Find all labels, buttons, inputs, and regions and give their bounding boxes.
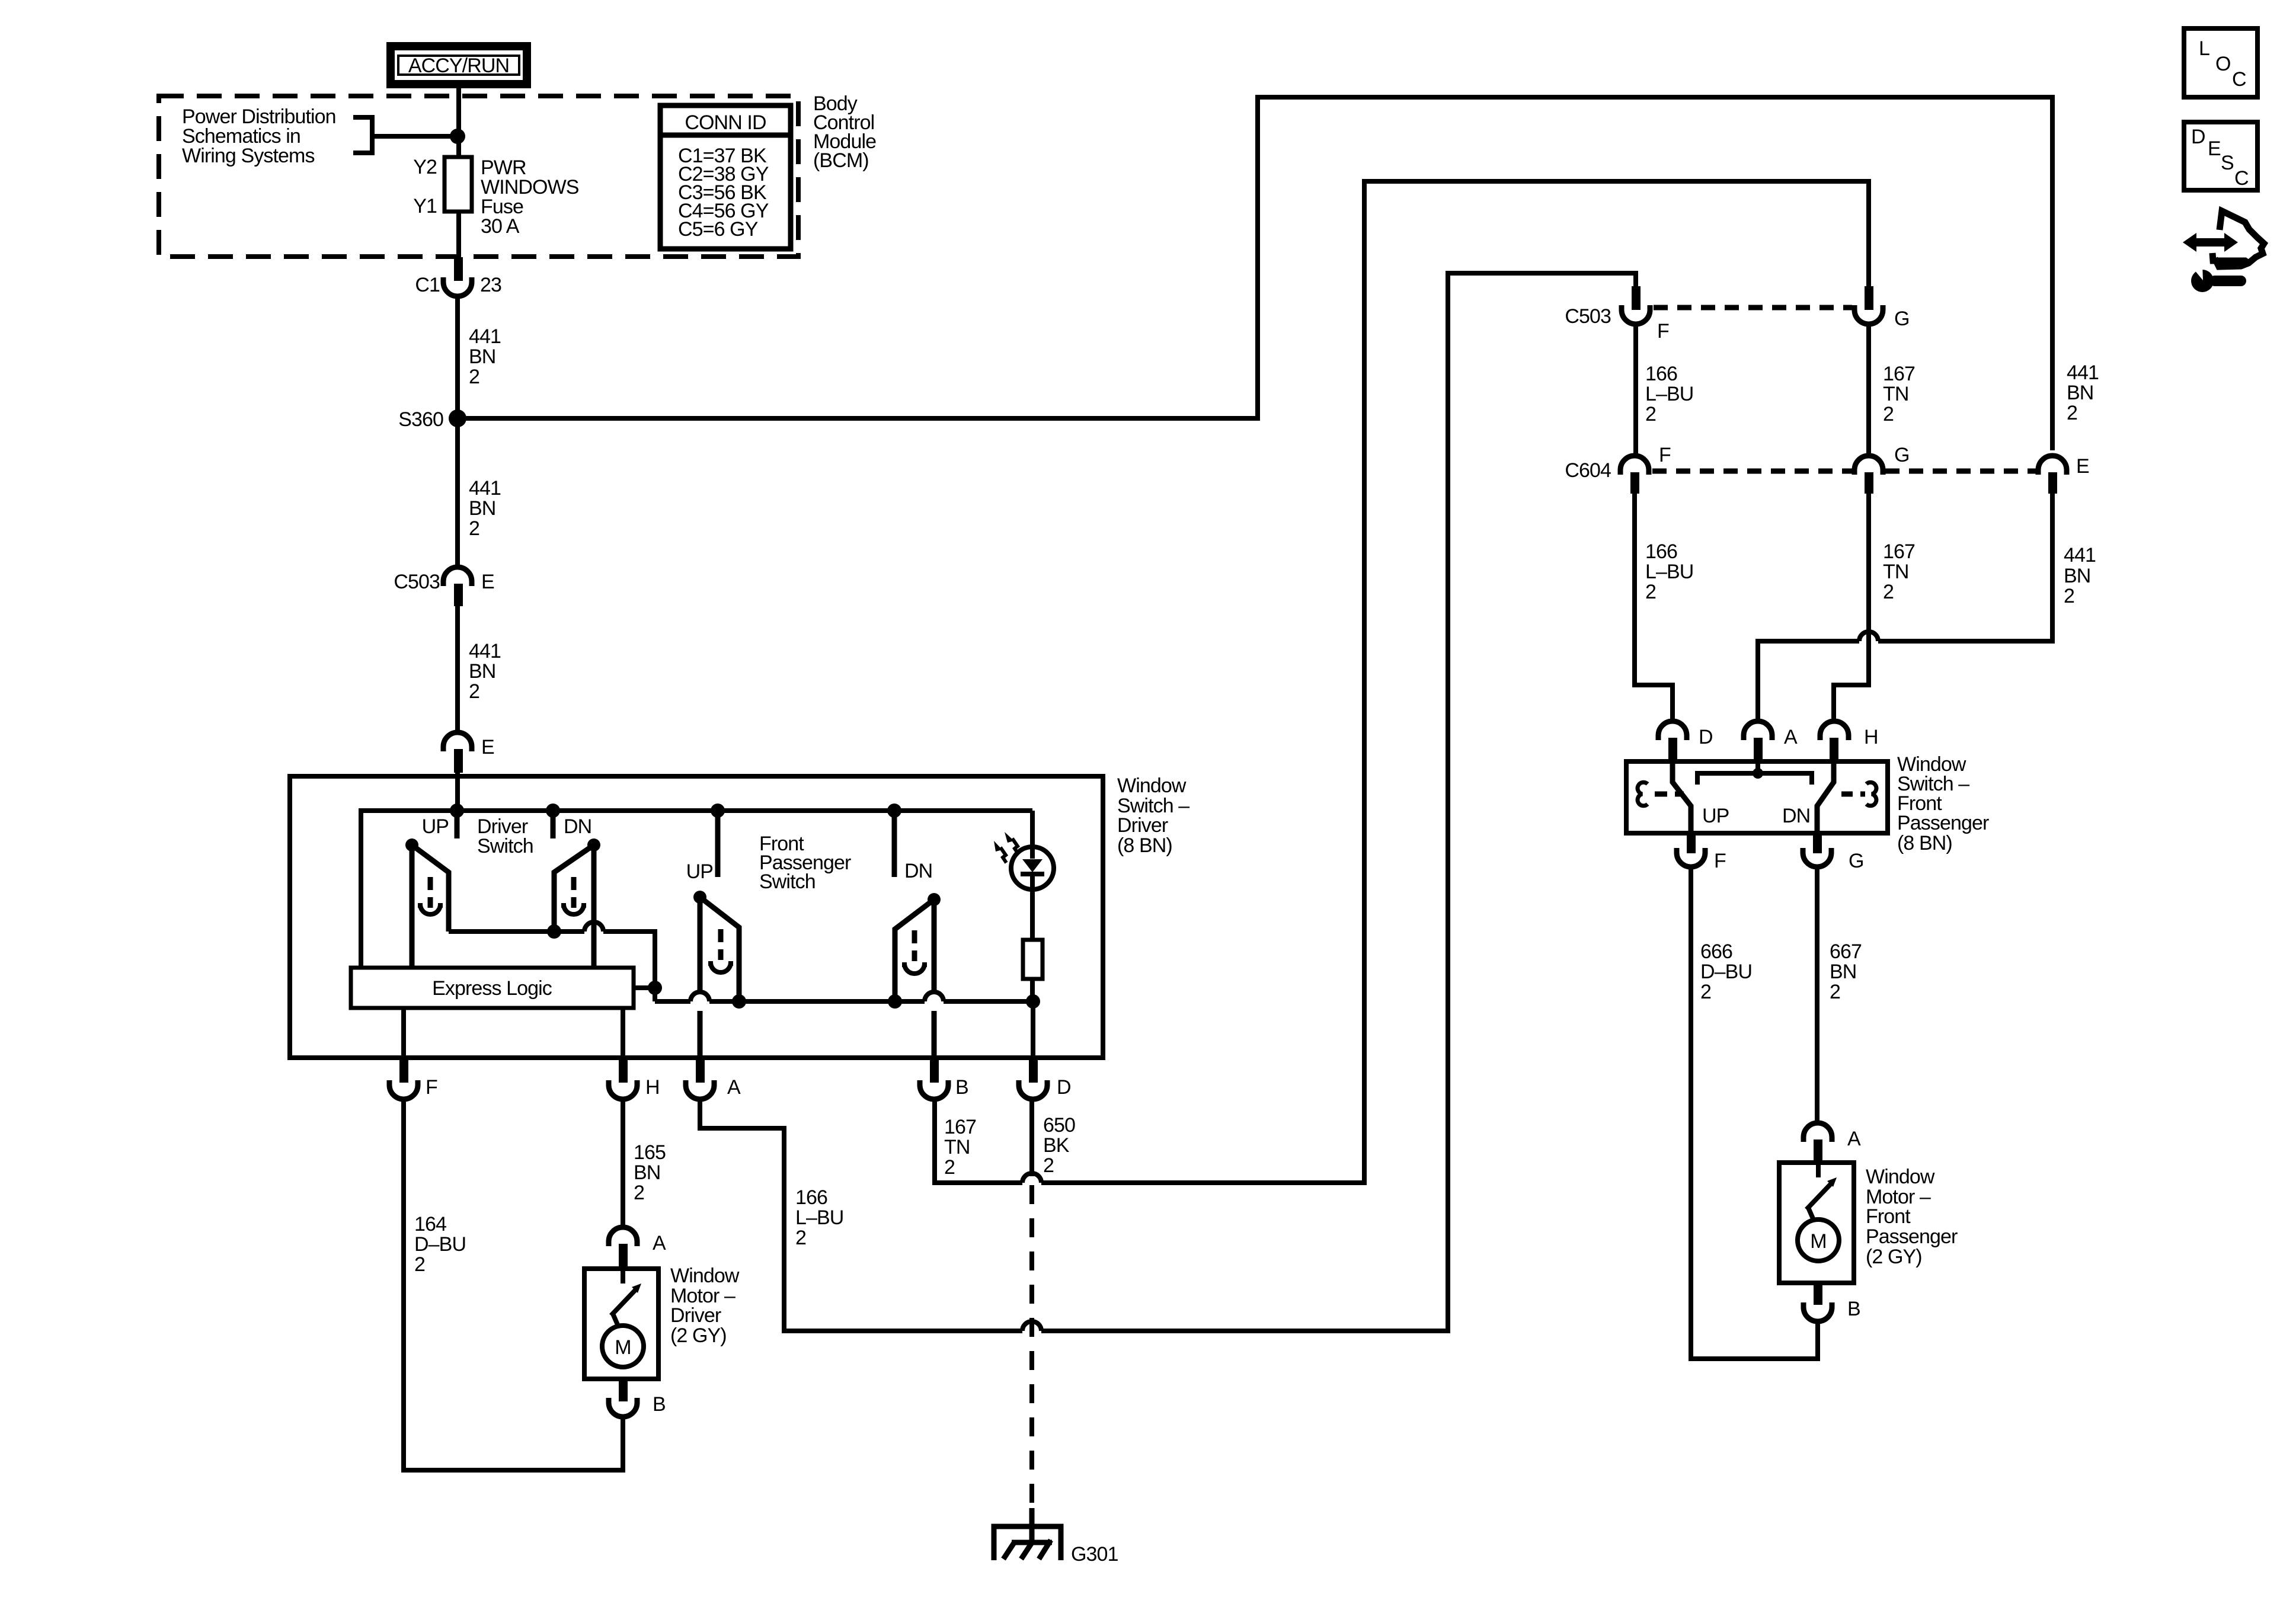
wire S360 feed loop to C604 E (441 BN 2) (458, 97, 2052, 450)
connector C604 terminal G (1854, 444, 1910, 475)
reference box LOC (2184, 28, 2257, 97)
pin E of connector C604 (2048, 472, 2057, 494)
node LED leg to lower bus (1026, 994, 1040, 1009)
svg-text:C: C (2232, 68, 2246, 91)
svg-text:2: 2 (469, 680, 479, 703)
svg-text:D: D (2191, 126, 2205, 148)
wire dashed detent left (1655, 792, 1684, 797)
connector terminal A of passenger switch (1744, 721, 1798, 748)
wire terminal F to driver motor B, circuit 164 D-BU 2 (404, 1099, 623, 1470)
svg-text:(2 GY): (2 GY) (1866, 1246, 1922, 1268)
switch driver UP (pivot, blade, detent) (405, 838, 449, 968)
svg-text:Window: Window (1866, 1166, 1935, 1188)
svg-text:2: 2 (1883, 403, 1894, 425)
connector C604 terminal F (1565, 444, 1671, 482)
connector C1 terminal 23 (415, 274, 501, 296)
wire LED to resistor (1030, 876, 1035, 940)
svg-text:D: D (1057, 1076, 1071, 1099)
power symbol ACCY/RUN (391, 46, 527, 84)
connector terminal B of passenger window motor (1803, 1298, 1860, 1321)
wire fuse to connector C1 (456, 212, 461, 257)
wire dashed ground run to G301 (1029, 1185, 1034, 1510)
svg-text:A: A (1784, 726, 1798, 748)
svg-text:DN: DN (1782, 805, 1810, 827)
svg-text:2: 2 (469, 366, 479, 388)
pin A of passenger switch (1754, 738, 1763, 761)
pin B of passenger window motor (1814, 1283, 1822, 1305)
pin F of connector C604 (1630, 472, 1639, 494)
pin A of driver window motor (619, 1244, 628, 1269)
callout bracket to Power Distribution (353, 117, 454, 153)
svg-text:D: D (1699, 726, 1713, 748)
svg-text:E: E (481, 736, 494, 758)
wire crossbar from UP/DN blades to express logic (hop over DN pivot wire) (449, 922, 655, 1001)
wire express logic to terminal F (401, 1008, 406, 1058)
splice node S360 (449, 409, 466, 427)
svg-text:TN: TN (944, 1136, 970, 1158)
pin F of passenger switch (1687, 833, 1696, 853)
label Body Control Module (BCM) (813, 92, 876, 172)
svg-text:S: S (2221, 152, 2234, 174)
wire dashed connector line C604 G-E (1885, 469, 2036, 474)
svg-text:Passenger: Passenger (1866, 1225, 1958, 1248)
svg-text:CONN ID: CONN ID (685, 111, 766, 134)
svg-text:666: 666 (1700, 940, 1732, 963)
wire C503 G to C604 G, circuit 167 TN 2 (1866, 324, 1871, 456)
svg-text:Y1: Y1 (413, 195, 437, 217)
contact stub driver DN (551, 811, 556, 838)
svg-text:(8 BN): (8 BN) (1117, 834, 1172, 857)
node bus to passenger DN contact (887, 804, 901, 818)
svg-text:441: 441 (469, 325, 501, 348)
svg-text:G301: G301 (1071, 1543, 1118, 1566)
connector id table CONN ID (660, 105, 791, 249)
svg-text:BN: BN (469, 660, 495, 683)
wire terminal D ground drop, circuit 650 BK 2 (1029, 1099, 1034, 1176)
contact stub passenger DN (892, 811, 897, 877)
svg-text:C: C (2234, 167, 2249, 190)
pin E of C503 (454, 584, 463, 606)
svg-text:C604: C604 (1565, 459, 1611, 482)
symbol spring-return arrow right (1866, 782, 1876, 806)
motor M passenger (1798, 1219, 1839, 1261)
wire label 441 BN 2 at C604 E feed (2067, 361, 2099, 424)
svg-text:BN: BN (2067, 382, 2093, 404)
svg-text:2: 2 (1645, 581, 1656, 603)
svg-text:A: A (1847, 1128, 1861, 1150)
switch passenger UP contact blade D-F (1673, 761, 1691, 833)
wire ACCY/RUN to fuse (456, 88, 461, 157)
wire C604 G to passenger switch H, circuit 167 TN 2 (1834, 494, 1869, 721)
wire dashed connector line C503 F-G (1654, 305, 1852, 311)
svg-text:Wiring Systems: Wiring Systems (182, 145, 315, 167)
node DN blade to crossbar (547, 924, 561, 939)
wire terminal H to driver motor A, circuit 165 BN 2 (621, 1099, 625, 1227)
component box Window Switch - Driver (8 BN) (290, 776, 1103, 1058)
hop 167 wire over ground wire (1022, 1173, 1041, 1183)
switch passenger DN contact blade H-G (1817, 761, 1834, 833)
svg-text:UP: UP (686, 860, 713, 883)
svg-text:F: F (1659, 444, 1671, 466)
svg-text:C503: C503 (394, 571, 440, 593)
circuit breaker inside driver motor (611, 1269, 641, 1327)
node crossbar to express logic (648, 981, 662, 995)
svg-text:H: H (1864, 726, 1878, 748)
wire passenger F to motor B, circuit 666 D-BU 2 (1691, 867, 1818, 1359)
pin G of passenger switch (1813, 833, 1822, 853)
svg-text:667: 667 (1830, 940, 1862, 963)
svg-text:2: 2 (2067, 402, 2077, 424)
svg-text:2: 2 (1700, 981, 1711, 1003)
connector terminal E at driver window switch (443, 732, 494, 758)
svg-text:2: 2 (795, 1227, 806, 1249)
svg-text:O: O (2215, 53, 2231, 75)
svg-text:2: 2 (414, 1253, 425, 1276)
svg-text:C5=6 GY: C5=6 GY (678, 218, 758, 241)
svg-text:ACCY/RUN: ACCY/RUN (408, 55, 509, 77)
svg-text:167: 167 (1883, 540, 1915, 563)
reference box DESC (2184, 122, 2257, 190)
node bus to DN contact (546, 804, 560, 818)
connector C503 terminal G (1854, 305, 1910, 330)
svg-text:Passenger: Passenger (1897, 812, 1989, 834)
connector terminal F of passenger switch (1677, 848, 1726, 872)
pin B of driver switch (930, 1058, 939, 1083)
svg-text:TN: TN (1883, 561, 1909, 583)
wire express logic to crossbar (634, 985, 655, 990)
svg-text:L–BU: L–BU (795, 1206, 843, 1229)
svg-text:(8 BN): (8 BN) (1897, 832, 1952, 854)
wire S360 down to C503 E, circuit 441 BN 2 (455, 418, 460, 567)
svg-text:BN: BN (634, 1161, 660, 1184)
node junction at BCM feed (450, 129, 465, 144)
svg-text:L–BU: L–BU (1645, 383, 1693, 405)
wire A center feed with bracket (1697, 761, 1812, 785)
connector terminal F of driver switch (389, 1076, 437, 1099)
wire E pin into switch internal bus (455, 770, 460, 811)
node passenger UP blade to lower bus (732, 994, 746, 1009)
svg-text:441: 441 (2064, 544, 2096, 566)
svg-text:2: 2 (1043, 1154, 1054, 1177)
svg-text:165: 165 (634, 1141, 666, 1164)
motor box Window Motor - Driver (2 GY) (584, 1269, 658, 1379)
svg-text:H: H (645, 1076, 660, 1099)
svg-text:L–BU: L–BU (1645, 561, 1693, 583)
svg-text:D–BU: D–BU (1700, 961, 1752, 983)
svg-text:BN: BN (469, 497, 495, 520)
wire resistor to lower bus and terminal D (1032, 979, 1033, 1058)
svg-text:166: 166 (1645, 363, 1677, 385)
connector terminal A of driver switch (686, 1076, 741, 1099)
svg-text:A: A (653, 1232, 666, 1254)
svg-text:G: G (1894, 308, 1910, 330)
connector terminal H of driver switch (609, 1076, 660, 1099)
logic block Express Logic (351, 968, 634, 1008)
svg-text:F: F (1657, 320, 1669, 343)
pin 23 of connector C1 (454, 257, 463, 281)
svg-text:2: 2 (634, 1182, 644, 1204)
svg-text:S360: S360 (398, 408, 443, 431)
connector terminal D of driver switch (1019, 1076, 1071, 1099)
svg-text:Front: Front (1866, 1205, 1911, 1228)
resistor (LED dropping resistor) (1023, 940, 1043, 979)
contact stub driver UP (455, 811, 460, 838)
component box Window Switch - Front Passenger (8 BN) (1626, 761, 1888, 833)
pin D of driver switch (1029, 1058, 1038, 1083)
svg-text:G: G (1894, 444, 1910, 466)
module box Body Control Module (BCM) dashed border (159, 96, 798, 257)
wire express logic to terminal H (621, 1008, 625, 1058)
svg-text:D–BU: D–BU (414, 1233, 466, 1256)
wire terminal B to C503 G, circuit 167 TN 2 (driver loop) (935, 181, 1869, 1183)
switch driver DN (pivot, blade, detent) (554, 838, 600, 968)
node passenger DN blade to lower bus (888, 994, 902, 1009)
svg-text:E: E (2076, 455, 2089, 478)
svg-text:BN: BN (2064, 565, 2090, 587)
svg-text:Driver: Driver (1117, 814, 1168, 837)
svg-text:164: 164 (414, 1213, 446, 1235)
connector C503 terminal E (left) (394, 567, 494, 593)
svg-text:30 A: 30 A (481, 215, 520, 238)
pin G of connector C503 (1865, 286, 1873, 310)
pin F of connector C503 (1632, 286, 1641, 310)
circuit breaker inside passenger motor (1806, 1163, 1837, 1221)
svg-text:Window: Window (1117, 774, 1187, 797)
fuse F1 PWR WINDOWS 30 A (413, 156, 579, 238)
svg-text:441: 441 (2067, 361, 2099, 384)
svg-text:Express Logic: Express Logic (432, 977, 552, 1000)
symbol spring-return arrow left (1638, 782, 1648, 806)
svg-text:2: 2 (1645, 403, 1656, 425)
svg-text:166: 166 (1645, 540, 1677, 563)
svg-text:Y2: Y2 (413, 156, 437, 178)
motor box Window Motor - Front Passenger (2 GY) (1779, 1163, 1854, 1283)
svg-text:2: 2 (469, 517, 479, 540)
wire C503 E to switch connector E, circuit 441 BN 2 (455, 606, 460, 732)
svg-text:F: F (1714, 850, 1726, 872)
pin D of passenger switch (1668, 738, 1677, 761)
connector terminal A of driver window motor (609, 1227, 666, 1254)
svg-text:166: 166 (795, 1186, 827, 1209)
wire C503 F to C604 F, circuit 166 L-BU 2 (1633, 324, 1638, 456)
svg-text:BN: BN (469, 345, 495, 368)
svg-text:UP: UP (1702, 805, 1729, 827)
svg-text:E: E (481, 571, 494, 593)
pin G of connector C604 (1865, 472, 1873, 494)
svg-text:L: L (2199, 37, 2209, 60)
wire internal feed bus of driver switch (361, 811, 1032, 968)
wire terminal A to C503 F, circuit 166 L-BU 2 (driver loop) (700, 273, 1636, 1331)
wire C604 F to passenger switch D, circuit 166 L-BU 2 (1635, 494, 1673, 721)
svg-text:441: 441 (469, 640, 501, 662)
wire dashed detent right (1841, 792, 1865, 797)
svg-text:BK: BK (1043, 1134, 1070, 1157)
pin E of driver window switch (454, 749, 463, 773)
wire passenger G to motor A, circuit 667 BN 2 (1815, 867, 1819, 1123)
svg-text:167: 167 (1883, 363, 1915, 385)
node bus to passenger UP contact (711, 804, 725, 818)
svg-text:Window: Window (670, 1265, 740, 1287)
ground symbol G301 (994, 1508, 1118, 1566)
svg-text:167: 167 (944, 1116, 976, 1138)
wire bus corner down to LED (1030, 811, 1035, 859)
icon navigation arrow with wrench (2183, 211, 2264, 292)
svg-text:2: 2 (944, 1156, 955, 1179)
pin A of driver switch (696, 1058, 705, 1083)
svg-text:F: F (426, 1076, 437, 1099)
connector terminal D of passenger switch (1658, 721, 1713, 748)
connector terminal B of driver switch (920, 1076, 968, 1099)
pin A of passenger window motor (1814, 1140, 1822, 1163)
svg-text:DN: DN (904, 860, 932, 882)
svg-text:BN: BN (1830, 961, 1856, 983)
connector terminal H of passenger switch (1820, 721, 1878, 748)
wire lower bus of driver switch with hops over pivot wires (655, 992, 1033, 1001)
pin B of driver window motor (619, 1379, 628, 1401)
svg-text:(BCM): (BCM) (813, 149, 869, 172)
wire C1 to S360, circuit 441 BN 2 (455, 296, 460, 418)
svg-text:G: G (1849, 850, 1864, 872)
svg-text:TN: TN (1883, 383, 1909, 405)
connector terminal A of passenger window motor (1803, 1123, 1861, 1150)
label Power Distribution Schematics in Wiring Systems (182, 105, 336, 167)
connector C604 terminal E (2038, 455, 2089, 478)
pin H of passenger switch (1830, 738, 1838, 761)
svg-text:B: B (653, 1393, 666, 1416)
svg-text:650: 650 (1043, 1114, 1075, 1137)
pin H of driver switch (619, 1058, 628, 1083)
connector C503 terminal F (1565, 305, 1669, 343)
svg-text:Switch: Switch (477, 835, 533, 857)
connector terminal B of driver window motor (609, 1393, 666, 1417)
svg-text:2: 2 (2064, 585, 2074, 607)
LED indicator (illumination) (994, 832, 1054, 889)
switch passenger UP in driver unit (pivot, blade, detent) (693, 891, 739, 1058)
connector terminal G of passenger switch (1803, 848, 1864, 872)
svg-text:C1: C1 (415, 274, 440, 296)
svg-text:DN: DN (564, 815, 591, 838)
svg-text:2: 2 (1830, 981, 1840, 1003)
svg-text:23: 23 (480, 274, 501, 296)
svg-text:UP: UP (422, 815, 449, 838)
motor M driver (602, 1326, 644, 1367)
wire C604 E to passenger switch A, circuit 441 BN 2, hop over 167 wire (1758, 494, 2052, 721)
wire dashed connector line C604 F-G (1652, 469, 1852, 474)
hop 166 wire over ground wire (1022, 1321, 1041, 1331)
contact stub passenger UP (715, 811, 721, 877)
svg-text:Driver: Driver (670, 1304, 721, 1327)
svg-text:441: 441 (469, 477, 501, 500)
svg-text:Switch: Switch (759, 870, 816, 893)
svg-text:B: B (955, 1076, 968, 1099)
svg-text:M: M (1810, 1230, 1826, 1253)
svg-text:A: A (727, 1076, 741, 1099)
svg-text:(2 GY): (2 GY) (670, 1324, 727, 1347)
svg-text:M: M (615, 1336, 631, 1359)
node bus to UP contact (450, 804, 464, 818)
switch passenger DN in driver unit (pivot, blade, detent) (895, 893, 941, 1058)
svg-text:B: B (1847, 1298, 1860, 1320)
svg-text:E: E (2208, 137, 2221, 160)
svg-text:2: 2 (1883, 581, 1894, 603)
svg-text:C503: C503 (1565, 305, 1611, 328)
pin F of driver switch (399, 1058, 408, 1083)
